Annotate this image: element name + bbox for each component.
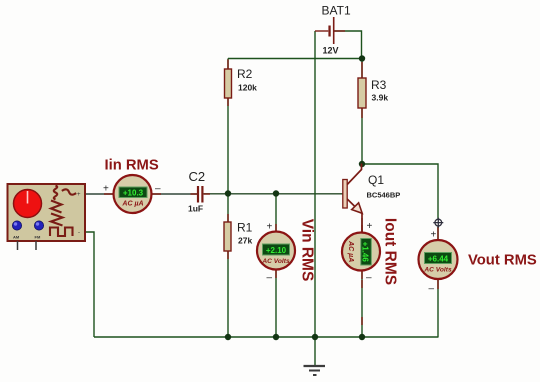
- svg-text:+1.46: +1.46: [361, 242, 370, 263]
- wire ground stub: [314, 337, 316, 366]
- voltmeter Vin pins: [275, 224, 277, 278]
- wire R3 column collector: [361, 59, 363, 165]
- wire battery positive to node: [335, 31, 362, 59]
- ammeter Iout pins: [361, 225, 363, 279]
- svg-text:C2: C2: [189, 169, 206, 184]
- svg-text:–: –: [267, 273, 273, 284]
- probe marker on Vout wire: [433, 218, 443, 228]
- svg-text:R1: R1: [237, 221, 253, 235]
- voltmeter Vout RMS: [419, 230, 458, 295]
- waveform icon sawtooth: [51, 214, 63, 226]
- svg-text:Iout RMS: Iout RMS: [381, 218, 398, 285]
- resistor R4 pins: [361, 280, 363, 325]
- emitter lead: [347, 199, 362, 232]
- svg-text:R3: R3: [371, 78, 387, 92]
- svg-text:AC µA: AC µA: [121, 201, 143, 208]
- signal generator: [8, 184, 86, 250]
- svg-text:AC Volts: AC Volts: [261, 258, 290, 265]
- svg-text:+: +: [77, 192, 81, 198]
- svg-text:12V: 12V: [323, 46, 339, 56]
- svg-text:-: -: [78, 230, 80, 236]
- capacitor C2 pins: [191, 193, 211, 195]
- svg-text:–: –: [155, 184, 161, 195]
- svg-text:Iin RMS: Iin RMS: [105, 158, 159, 174]
- battery BAT1: [315, 4, 351, 56]
- collector lead: [347, 164, 361, 185]
- ground: [304, 366, 326, 375]
- svg-text:AM: AM: [13, 235, 20, 240]
- svg-text:–: –: [366, 273, 372, 284]
- resistor R2: [225, 67, 258, 98]
- wire generator plus to Iin meter and base wire: [85, 193, 197, 195]
- capacitor C2: [188, 169, 205, 214]
- emitter arrowhead: [352, 203, 363, 214]
- svg-text:+: +: [267, 222, 273, 233]
- wire battery negative column: [314, 31, 316, 337]
- resistor R3 pins: [361, 62, 363, 118]
- svg-text:+: +: [431, 230, 437, 241]
- ammeter Iout RMS (rotated face): [342, 221, 380, 284]
- svg-text:AC µA: AC µA: [347, 240, 354, 262]
- resistor R2 pins: [227, 60, 229, 107]
- generator bottom stubs: [18, 241, 37, 250]
- node at ground stub: [312, 334, 318, 340]
- wire R1 column to ground rail: [227, 194, 229, 338]
- node at C2 base junction: [225, 190, 231, 196]
- svg-text:–: –: [429, 284, 435, 295]
- resistor R1 pins: [227, 214, 229, 259]
- svg-text:+2.10: +2.10: [266, 246, 287, 255]
- node at R1 ground: [225, 334, 231, 340]
- wire ground rail: [94, 336, 439, 338]
- resistor R3: [358, 78, 388, 108]
- svg-text:+10.3: +10.3: [123, 189, 144, 198]
- wire Vin meter column: [275, 194, 277, 338]
- svg-text:BAT1: BAT1: [322, 4, 351, 18]
- node at Vin meter ground: [273, 334, 279, 340]
- voltmeter Vin RMS: [257, 222, 295, 284]
- svg-text:FM: FM: [35, 235, 41, 240]
- wire collector node to Vout column: [362, 164, 438, 337]
- svg-text:R2: R2: [237, 67, 253, 81]
- wire C2 right to transistor base: [204, 193, 343, 195]
- wire generator minus down to ground rail: [85, 232, 94, 337]
- svg-text:3.9k: 3.9k: [372, 93, 389, 103]
- wire R2 column: [227, 59, 229, 194]
- wire top rail from R2 to battery+ node: [228, 58, 362, 60]
- node at collector junction: [359, 161, 365, 167]
- node at battery positive rail: [359, 55, 365, 61]
- svg-text:AC Volts: AC Volts: [423, 267, 452, 274]
- svg-text:+6.44: +6.44: [428, 255, 449, 264]
- svg-text:BC546BP: BC546BP: [367, 191, 401, 200]
- svg-text:Vout RMS: Vout RMS: [468, 253, 537, 269]
- waveform icon square: [50, 228, 73, 237]
- svg-text:Q1: Q1: [368, 173, 384, 187]
- svg-text:1uF: 1uF: [188, 204, 203, 214]
- svg-text:+: +: [367, 221, 373, 232]
- waveform icon triangle: [51, 201, 62, 213]
- svg-text:120k: 120k: [238, 83, 257, 93]
- svg-text:Vin RMS: Vin RMS: [298, 219, 315, 282]
- node at Vin meter tap: [273, 190, 279, 196]
- transistor Q1: [343, 164, 400, 233]
- resistor R1: [224, 221, 253, 252]
- waveform icon sine: [54, 186, 57, 200]
- node at R4 ground: [359, 334, 365, 340]
- svg-text:+: +: [103, 184, 109, 195]
- ammeter Iin pins: [104, 193, 161, 195]
- svg-text:27k: 27k: [238, 236, 252, 246]
- voltmeter Vout pins: [437, 227, 439, 289]
- wire emitter column through Iout meter and R4: [361, 218, 363, 337]
- ammeter Iin RMS: [103, 175, 161, 213]
